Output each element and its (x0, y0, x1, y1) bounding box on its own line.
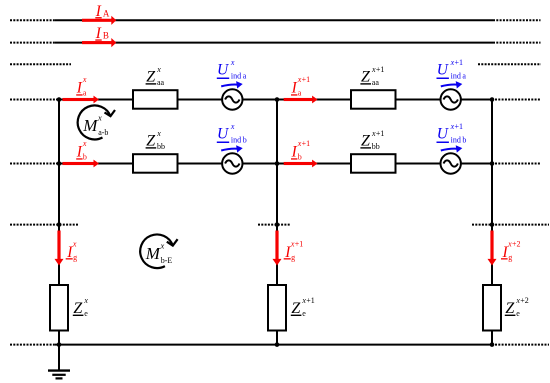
label Ig^x (66, 239, 77, 261)
svg-text:bb: bb (372, 142, 380, 151)
voltage arrow Uinda^x (221, 81, 243, 88)
ground bus dotted left (10, 344, 55, 346)
wire row a segment 5 (461, 99, 492, 101)
svg-text:e: e (302, 309, 306, 318)
label MbE (145, 241, 173, 265)
current arrow Ib^x (63, 160, 100, 168)
current arrow Ig^x+2 (488, 231, 497, 266)
svg-text:M: M (82, 116, 98, 135)
wire row a segment 3 (243, 99, 352, 101)
node row b left (57, 161, 62, 166)
svg-text:x: x (156, 129, 161, 138)
resistor Zaa^x (133, 90, 178, 109)
svg-text:x: x (83, 296, 88, 305)
current arrow Ia^x (63, 96, 100, 104)
node bottom dotted left (57, 222, 62, 227)
wire phase A (55, 19, 493, 21)
svg-text:+1: +1 (455, 122, 464, 131)
voltage arrow Uindb^x (221, 145, 243, 152)
label Zaa^x (146, 65, 165, 87)
svg-text:I: I (291, 143, 298, 160)
continuation dotted wire bottom left (10, 224, 79, 226)
voltage arrow Uindb^x+1 (441, 145, 463, 152)
svg-text:aa: aa (157, 78, 165, 87)
svg-text:g: g (73, 253, 77, 262)
wire middle vertical (276, 100, 278, 345)
node row a middle (275, 97, 280, 102)
current arrow Ig^x (55, 231, 64, 266)
svg-text:b-E: b-E (161, 256, 173, 265)
current arrow Ig^x+1 (273, 231, 282, 266)
svg-text:x: x (160, 241, 165, 251)
wire row a segment 1 (56, 99, 133, 101)
wire phase A dotted left (10, 19, 55, 21)
node bus right (490, 342, 495, 347)
label Uindb^x+1 (437, 122, 467, 145)
svg-text:Z: Z (146, 133, 156, 150)
svg-text:x: x (82, 75, 87, 84)
resistor Ze^x+2 (483, 285, 501, 331)
svg-text:e: e (516, 309, 520, 318)
resistor Ze^x+1 (268, 285, 286, 331)
svg-text:x: x (97, 112, 102, 122)
svg-text:a-b: a-b (98, 128, 108, 137)
svg-text:Z: Z (291, 300, 301, 317)
source Uindb^x+1 (441, 153, 461, 173)
wire row a dotted left (10, 99, 56, 101)
source Uinda^x (222, 89, 242, 109)
wire left vertical (58, 100, 60, 345)
wire row a dotted right (495, 99, 541, 101)
svg-text:B: B (103, 31, 109, 41)
wire phase B (55, 42, 493, 44)
wire row a segment 4 (396, 99, 441, 101)
svg-text:+1: +1 (306, 296, 315, 305)
wire row b segment 4 (396, 163, 441, 165)
wire row b segment 5 (461, 163, 492, 165)
svg-text:x: x (72, 239, 77, 248)
current arrow IA (82, 16, 116, 25)
svg-text:a: a (83, 88, 87, 97)
label Mab (82, 112, 108, 136)
wire row b segment 2 (178, 163, 223, 165)
svg-text:U: U (217, 126, 230, 143)
svg-text:+2: +2 (520, 296, 529, 305)
svg-text:bb: bb (157, 142, 165, 151)
wire row a segment 2 (178, 99, 223, 101)
label Ze^x+2 (505, 296, 529, 318)
svg-text:+1: +1 (376, 65, 385, 74)
resistor Zbb^x (133, 154, 178, 173)
svg-text:Z: Z (73, 300, 83, 317)
wire row b segment 1 (56, 163, 133, 165)
label Uinda^x+1 (437, 58, 467, 81)
svg-text:x: x (230, 58, 235, 67)
current arrow IB (82, 38, 116, 47)
svg-text:M: M (145, 244, 161, 263)
label Uindb^x (217, 122, 247, 145)
voltage arrow Uinda^x+1 (441, 81, 463, 88)
node bottom dotted middle (275, 222, 280, 227)
ground bus wire (55, 344, 493, 346)
wire row b segment 3 (243, 163, 352, 165)
label Ig^x+2 (501, 239, 521, 261)
wire phase A dotted right (493, 19, 541, 21)
node row b middle (275, 161, 280, 166)
wire right vertical (491, 100, 493, 345)
wire phase B dotted right (493, 42, 541, 44)
svg-text:Z: Z (146, 69, 156, 86)
label Ia^x+1 (291, 75, 311, 97)
svg-text:x: x (230, 122, 235, 131)
resistor Zaa^x+1 (351, 90, 396, 109)
current arrow Ia^x+1 (284, 96, 318, 104)
svg-text:ind a: ind a (451, 72, 467, 81)
wire row b dotted left (10, 163, 56, 165)
svg-text:x: x (82, 139, 87, 148)
svg-text:I: I (76, 79, 83, 96)
svg-text:b: b (298, 152, 302, 161)
svg-text:aa: aa (372, 78, 380, 87)
resistor Ze^x (50, 285, 68, 331)
source Uindb^x (222, 153, 242, 173)
resistor Zbb^x+1 (351, 154, 396, 173)
label Zbb^x+1 (360, 129, 384, 151)
label Ia^x (76, 75, 87, 97)
node row b right (490, 161, 495, 166)
node bottom dotted right (490, 222, 495, 227)
svg-text:Z: Z (361, 133, 371, 150)
ground bus dotted right (495, 344, 549, 346)
svg-text:ind b: ind b (231, 136, 247, 145)
label IB (95, 25, 109, 42)
svg-text:b: b (83, 152, 87, 161)
svg-text:Z: Z (361, 69, 371, 86)
svg-text:U: U (437, 62, 450, 79)
label Ig^x+1 (284, 239, 304, 261)
svg-text:e: e (84, 309, 88, 318)
svg-text:A: A (103, 8, 110, 18)
mutual coupling arrow Mab (78, 105, 115, 139)
ground (48, 345, 70, 379)
continuation dotted wire row 3 right (478, 63, 541, 65)
current arrow Ib^x+1 (284, 160, 318, 168)
node row a right (490, 97, 495, 102)
label Ze^x (73, 296, 89, 318)
node bus left (57, 342, 62, 347)
svg-text:+1: +1 (302, 75, 311, 84)
label Zbb^x (146, 129, 165, 151)
svg-text:ind a: ind a (231, 72, 247, 81)
label Ib^x+1 (291, 139, 311, 161)
svg-text:U: U (437, 126, 450, 143)
svg-text:x: x (156, 65, 161, 74)
svg-text:a: a (298, 88, 302, 97)
svg-text:+1: +1 (295, 239, 304, 248)
svg-text:ind b: ind b (451, 136, 467, 145)
mutual coupling arrow MbE (140, 234, 177, 268)
label IA (95, 3, 110, 20)
wire phase B dotted left (10, 42, 55, 44)
continuation dotted wire row 3 left (10, 63, 71, 65)
node bus middle (275, 342, 280, 347)
label Ib^x (76, 139, 87, 161)
continuation dotted wire bottom middle (258, 224, 291, 226)
label Ze^x+1 (291, 296, 315, 318)
node row a left (57, 97, 62, 102)
svg-text:+1: +1 (455, 58, 464, 67)
wire row b dotted right (495, 163, 541, 165)
svg-text:+2: +2 (512, 239, 521, 248)
svg-text:+1: +1 (376, 129, 385, 138)
continuation dotted wire bottom right (472, 224, 549, 226)
label Uinda^x (217, 58, 247, 81)
source Uinda^x+1 (441, 89, 461, 109)
svg-text:+1: +1 (302, 139, 311, 148)
svg-text:Z: Z (505, 300, 515, 317)
svg-text:g: g (291, 253, 295, 262)
svg-text:g: g (508, 253, 512, 262)
svg-text:U: U (217, 62, 230, 79)
svg-text:I: I (291, 79, 298, 96)
label Zaa^x+1 (360, 65, 384, 87)
svg-text:I: I (76, 143, 83, 160)
